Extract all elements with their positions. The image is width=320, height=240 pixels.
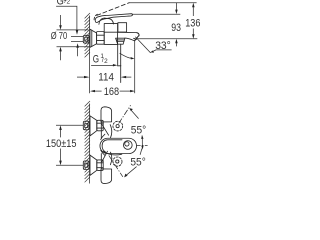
shower outlet pipe: [117, 44, 119, 66]
svg-text:136: 136: [185, 18, 200, 30]
faucet body (side view): [104, 24, 117, 45]
wall line (side view): [89, 16, 91, 94]
svg-text:55°: 55°: [131, 124, 146, 136]
dash-dot ray up 55: [119, 105, 131, 123]
dash-dot axis: [137, 144, 148, 146]
handle underside edge: [103, 152, 122, 155]
wall coupling ring (side view): [83, 35, 89, 43]
dash-dot ray down 55: [109, 155, 123, 176]
lower union nut: [97, 160, 103, 171]
supply pipe in wall: [71, 36, 83, 38]
svg-text:114: 114: [98, 72, 114, 84]
33-degree ray (slanted): [135, 37, 150, 53]
upper body block: [101, 107, 112, 122]
aerator lines: [134, 38, 137, 39]
upper hidden circle (dashed): [113, 121, 123, 131]
upper union nut: [97, 120, 103, 131]
leader G1/2 lower: [91, 64, 113, 66]
escutcheon cone (side view): [90, 29, 97, 47]
handle end circle: [123, 141, 132, 150]
G1/2 lower arrows at pipe: [76, 43, 79, 48]
lever handle (side view): [95, 14, 132, 23]
lower wall coupling ring: [83, 161, 89, 170]
leader 55 bottom: [126, 167, 136, 176]
svg-text:168: 168: [104, 86, 119, 98]
extension line B (lever top): [132, 13, 181, 15]
upper wall coupling ring: [83, 121, 89, 130]
raised lever (dashed): [97, 3, 129, 16]
upper escutcheon cone: [90, 116, 97, 136]
33-degree arc left w/ arrow: [120, 53, 131, 58]
wall line (top view): [89, 104, 91, 184]
body neck slant upper: [102, 124, 109, 135]
dimension 114: [77, 76, 84, 78]
svg-text:93: 93: [171, 22, 181, 34]
extension line C (spout outlet): [137, 38, 197, 40]
union nut (side view): [97, 32, 105, 45]
cartridge dome: [99, 18, 114, 24]
svg-text:2: 2: [67, 0, 71, 5]
33-degree ray (vertical): [134, 41, 136, 94]
svg-text:55°: 55°: [130, 157, 145, 169]
wall hatching (side view): [85, 13, 90, 57]
svg-text:G: G: [93, 53, 99, 65]
spout arm: [118, 32, 139, 41]
dimension 150+-15: [59, 125, 62, 130]
body side edges: [100, 121, 102, 138]
extension line A (raised lever top): [129, 2, 196, 4]
svg-text:Ø 70: Ø 70: [51, 31, 68, 42]
body back block: [118, 23, 127, 32]
handle (top view): [100, 138, 137, 153]
svg-text:33°: 33°: [155, 40, 171, 52]
dimension 150+-15 extension lines: [56, 124, 83, 126]
wall hatching (top view): [85, 101, 90, 182]
svg-text:2: 2: [104, 58, 108, 65]
dimension 168: [90, 90, 95, 92]
body internal line: [104, 31, 118, 33]
33-degree leader w/ arrow: [153, 50, 171, 51]
dimension Ø70 extension lines: [57, 29, 89, 31]
body neck slant lower: [102, 151, 108, 162]
lower escutcheon cone: [90, 155, 97, 175]
lower hidden circle (dashed): [113, 157, 122, 166]
leader 55 top: [132, 111, 139, 119]
handle end dot: [125, 142, 129, 146]
svg-text:150±15: 150±15: [46, 138, 77, 150]
leader G1/2 top: [56, 6, 77, 30]
diverter knob: [116, 38, 125, 44]
handle inner contour: [102, 140, 122, 152]
dimension Ø70 arrows: [60, 15, 62, 26]
spout tip face: [134, 36, 138, 41]
dimension 93: [175, 3, 177, 11]
arc arrow top: [141, 139, 143, 147]
arc arrow bottom: [141, 145, 143, 149]
dimension 136: [192, 3, 195, 8]
lower body block: [101, 169, 112, 184]
